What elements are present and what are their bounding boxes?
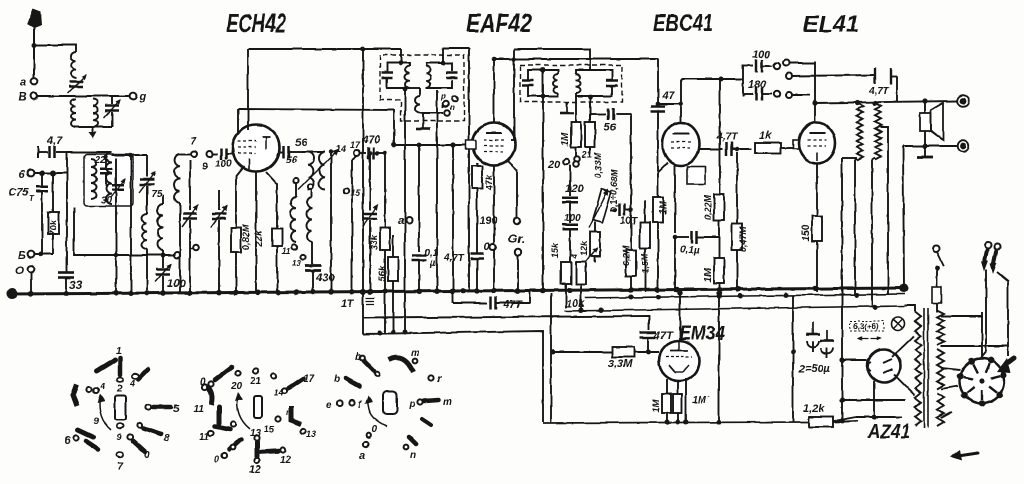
tube AZ41 lead down [894,374,915,395]
tube EAF42 cathode lead [493,166,495,292]
label EBC41 [653,10,713,37]
resistor 15k [550,242,571,308]
svg-text:e: e [326,400,332,411]
capacitor 22 [94,155,112,186]
mains switch [933,246,944,287]
IF2 secondary coil [576,74,581,93]
capacitor 33 [58,271,83,292]
terminal o1 [508,161,520,224]
svg-text:4,7T: 4,7T [868,86,890,97]
S1 arrow [97,394,111,430]
osc coil L3 [174,154,191,292]
osc contact 8 [190,245,199,251]
capacitor 100b [562,213,581,262]
IF2 primary coil [553,74,558,93]
svg-text:O: O [15,265,24,277]
svg-text:n: n [450,103,455,112]
svg-text:4,7T: 4,7T [716,132,738,143]
svg-text:1M: 1M [703,267,714,282]
osc padder coil P1 [290,184,296,242]
IF2 secondary cap [606,81,618,86]
tube EAF42 grids [484,140,504,152]
S2 pin12b [261,447,292,466]
tube EBC41 diode box [687,167,705,184]
wire antenna to coil [32,43,77,53]
terminal 0 [484,241,496,253]
wire x453 [450,142,455,292]
svg-text:9: 9 [202,161,209,173]
svg-text:0,1÷0,68M: 0,1÷0,68M [609,169,619,212]
resistor 3,3M [551,347,660,370]
svg-text:5: 5 [173,403,180,415]
transformer taps [941,316,1008,418]
resistor 1M a [560,96,581,160]
wire socket top feed [981,312,983,357]
S2 pin15 [264,408,291,434]
svg-text:47T: 47T [502,299,523,311]
svg-text:100: 100 [564,213,581,224]
svg-text:11: 11 [193,404,204,415]
S1 pin5 [145,403,180,415]
S1 pin6 [64,430,98,449]
tube AZ41 cathode link [839,357,867,362]
speaker [920,101,943,146]
capacitor 470 [360,134,385,159]
capacitor 430 [305,242,335,292]
terminal g1 [202,151,213,173]
capacitor 180 [743,79,780,101]
S2 pin11 [193,384,212,415]
switch contacts 20 21 [547,150,592,171]
S2 pin11b [199,407,236,443]
capacitor 4,7T b [699,132,752,156]
terminal circle EL41 mid [786,92,810,98]
svg-text:EBC41: EBC41 [653,10,713,37]
tube EBC41 plate [673,133,689,135]
tube EL41 grid connector [793,140,802,149]
resistor 22k [254,172,282,292]
IF2 shield box dashed [520,65,622,102]
resistor 6,2M [621,208,636,292]
output transformer primary bottom [842,158,857,160]
dial lamp label [850,321,884,331]
RF coil shield box [84,154,133,206]
svg-text:1T: 1T [341,298,355,310]
wire x116 column [115,158,117,292]
long wire x363 [362,49,364,292]
svg-text:p: p [440,92,446,101]
svg-text:100: 100 [752,49,771,61]
capacitor 120 [562,165,584,223]
svg-text:4: 4 [129,378,135,388]
terminal circle y76 [786,73,792,79]
antenna coupling coil [71,52,76,78]
svg-text:20: 20 [547,159,561,171]
tube EAF42 plate [486,132,502,134]
osc contact circles [293,178,313,189]
tube EL41 plate lead [812,61,817,123]
bus right terminal dot [900,284,909,293]
wire plate top x248 [247,49,249,130]
capacitor 47T bypass [453,289,530,311]
svg-text:EL41: EL41 [803,11,859,38]
wire x352 col [351,160,353,292]
tube ECH42 grids [238,141,256,153]
speaker bottom wire [903,143,957,148]
terminal O [15,265,34,292]
capacitor 10T [610,204,638,227]
band switch rail [74,207,177,258]
input transformer secondary [93,99,98,127]
rail3 dots [579,305,878,313]
fuse [932,287,941,312]
svg-text:7: 7 [190,136,196,147]
volume potentiometer [589,189,611,228]
wire grid2 x238 [237,109,239,134]
tube ECH42 envelope [233,125,280,172]
svg-text:0,22M: 0,22M [703,194,713,220]
resistor 70k [48,173,59,254]
svg-text:75: 75 [151,189,163,200]
S3 pin 0 [367,424,378,437]
S2 pin13 [250,428,262,439]
resistor 56k col [377,235,398,333]
rectifier socket arrow [997,358,1014,373]
osc coil L4b [158,195,164,250]
svg-text:11: 11 [282,247,291,256]
svg-text:6: 6 [64,435,71,447]
svg-text:12: 12 [249,464,261,476]
tube ECH42 cathode [248,158,250,169]
svg-text:2=50µ: 2=50µ [798,363,831,375]
svg-text:430: 430 [315,272,335,284]
svg-text:1M: 1M [658,200,669,215]
rail y109 [238,109,394,145]
svg-text:4: 4 [570,253,579,259]
wire 0,22M top [719,79,721,194]
bus junction dots [28,286,818,297]
electrolytic 2x50u [806,322,834,358]
trimmer 75 [139,155,163,214]
svg-text:ECH42: ECH42 [226,8,286,38]
svg-text:15: 15 [264,424,275,434]
trimmer 30 [101,179,125,206]
terminal B2 [18,250,53,262]
svg-text:4,7T: 4,7T [443,253,465,264]
rail2 dots [629,293,860,300]
svg-text:0: 0 [372,424,378,435]
capacitor 4,7T c [868,68,897,101]
svg-text:4,7: 4,7 [46,135,63,147]
S2 pin17 [282,374,314,394]
svg-text:20: 20 [230,381,243,392]
rectifier socket pins [957,357,1007,407]
svg-text:1M´: 1M´ [692,395,710,406]
tube EL41 cathode [816,152,818,161]
tube EBC41 cathode lead [674,165,676,233]
resistor 1M d [651,394,671,422]
IF2 primary cap [522,81,534,86]
rail2 y297 [585,294,905,298]
label EAF42 [466,8,532,38]
IF1 primary coil [405,66,410,88]
rail C y59 [492,57,658,62]
S3 pins e f [326,400,363,411]
tube EL41 plate [809,132,825,134]
capacitor 4,7 [38,135,67,158]
label 10k [566,297,585,310]
svg-text:b: b [334,374,340,385]
resistor 47k [472,163,494,292]
svg-text:m: m [411,348,420,359]
rail5 y333 [363,330,543,423]
tube AZ41 filament leads [834,381,902,421]
tube EBC41 plate lead [658,79,683,123]
dial arrows [858,337,880,340]
S1 pin8 [137,422,170,444]
label ECH42 [226,8,286,38]
osc transformer coil A [308,152,314,190]
svg-text:1k: 1k [759,130,772,142]
output transformer tap lead [880,127,888,295]
svg-text:EAF42: EAF42 [466,8,532,38]
svg-text:100: 100 [215,159,232,170]
svg-text:70k: 70k [48,220,58,236]
S1 pin0 [127,434,150,461]
terminal o2 [515,249,521,292]
svg-text:15: 15 [350,188,361,198]
rail3 y310 [565,306,905,311]
rectifier socket [960,359,1005,404]
IF2 left output [542,70,544,292]
svg-text:150: 150 [801,224,812,241]
wire B to g [37,95,130,97]
tube EM34 internals [666,342,692,372]
trimmer col x370 [362,151,378,292]
svg-text:47k: 47k [484,174,494,191]
IF2 plate feed [511,49,590,140]
terminal 15 [343,188,361,198]
IF1 tertiary taps [420,92,458,116]
S2 pin14 [271,373,284,398]
svg-text:6: 6 [19,169,26,181]
wire x131 column [129,154,133,292]
svg-text:3,3M: 3,3M [608,358,633,370]
S1 left bracket [73,384,77,406]
capacitor 100 grid [213,148,233,170]
antenna trimmer cap [68,75,86,93]
S1 pin4 right [129,374,138,388]
IF1 bottom lead [404,89,406,333]
svg-text:1: 1 [116,346,122,357]
tube ECH42 triode plate [262,137,270,149]
mains plug left prong [981,242,991,358]
svg-text:C75: C75 [8,187,29,199]
wire y155 link [112,154,147,156]
output transformer secondary bottom [872,158,875,160]
power transformer secondary bottom [937,393,944,426]
tube EM34 envelope [659,341,699,381]
IF1 secondary coil [426,66,431,88]
resistor 0,47M [732,147,748,292]
svg-text:33: 33 [69,278,83,292]
wire x419 col [412,143,438,292]
terminal 7 [190,136,197,157]
capacitor 47 [651,59,675,197]
IF2 ground [560,102,574,113]
svg-text:7: 7 [117,461,123,472]
IF2 primary top dot [541,68,546,73]
wire 4,7 to coil top [67,151,112,153]
svg-text:0: 0 [214,454,219,464]
IF2 bottom dots [541,94,593,100]
terminal 6 [19,169,67,181]
svg-text:6,3(+6): 6,3(+6) [853,322,879,331]
long wire x469 [467,48,472,292]
svg-text:B: B [18,90,27,104]
label 2x50u [798,363,831,375]
S2 right elbow [291,406,316,439]
svg-text:m: m [443,397,452,408]
RF coil L1 [91,159,97,199]
svg-text:21: 21 [581,150,592,160]
grid rail y145 [392,143,476,148]
resistor 150 [801,163,822,292]
IF1 shield box dashed [380,55,464,121]
resistor 1,2k [803,403,833,427]
S2 bottom-left stroke [214,439,241,464]
tube EL41 envelope [799,123,835,164]
svg-text:1M: 1M [560,131,571,146]
mains plug right prong [990,244,1008,356]
S1 pin4 left [86,381,105,394]
svg-text:190: 190 [479,215,498,227]
resistor 1,5M [640,200,650,292]
svg-text:1,2k: 1,2k [803,403,825,415]
variable capacitor VC2 [211,190,227,292]
output transformer secondary [875,103,881,160]
IF2 primary loop [528,70,558,96]
volume pot label [609,169,619,212]
S3 stroke right low [422,419,431,425]
EM34 lead dots [665,420,689,425]
svg-text:9: 9 [94,416,99,426]
osc transformer coil B [302,152,325,190]
tube EAF42 plate lead [493,59,495,122]
resistor 0,22M [703,194,724,258]
capacitor 47T em34 [640,330,674,352]
top rail y49 [248,47,401,52]
svg-text:1M: 1M [651,399,661,412]
S3 pin b top [355,352,379,376]
S2 pin20 [230,370,243,392]
wire plate rail y79 [681,77,743,82]
svg-text:100: 100 [167,278,186,290]
rail4 y317 [363,316,649,330]
label 190 [479,215,498,227]
svg-text:21: 21 [249,376,262,387]
wire coil column down [66,152,68,271]
IF1 secondary loop [426,63,452,88]
tube ECH42 center lead [255,172,257,292]
svg-text:p: p [408,399,415,410]
pilot lamp [892,318,905,331]
IF1 primary cap [382,73,393,78]
svg-text:Б: Б [18,250,26,262]
svg-text:µ: µ [429,258,436,269]
terminal a [20,76,37,88]
S3 pin p m [408,397,452,410]
transformer primary top lead [905,305,915,312]
svg-text:15k: 15k [550,242,560,258]
svg-text:0,47M: 0,47M [738,226,748,252]
svg-text:14: 14 [336,144,346,154]
svg-text:56: 56 [286,155,298,166]
bottom arrow mark [950,450,978,461]
svg-text:0,1µ: 0,1µ [680,245,700,256]
svg-text:180: 180 [748,79,767,91]
IF1 feed [399,49,404,65]
terminal a AVC [398,215,412,227]
svg-text:120: 120 [565,183,584,195]
resistor 1M b [653,163,669,292]
capacitor 56 osc [280,137,308,166]
S3 pin n [404,437,417,461]
tube AZ41 lead up [892,336,914,357]
input transformer primary [71,99,76,127]
resistor 0,33M [585,112,603,178]
svg-text:9: 9 [117,432,122,442]
svg-text:47T: 47T [653,330,674,342]
svg-text:0,33M: 0,33M [593,152,603,178]
power transformer primary [915,312,921,426]
S1 stroke top-left [97,360,115,371]
capacitor 0,1u [673,231,719,293]
capacitor 56 det [590,98,631,210]
wire speaker to bus end [903,146,904,287]
resistor 12k [579,222,600,262]
band rail terminal [174,252,180,258]
svg-text:470: 470 [361,134,381,146]
tube EBC41 envelope [663,123,700,166]
IF1 primary loop [387,63,410,88]
S1 pin7 [117,453,123,472]
S1 pin9 bottom [117,424,123,442]
resistor 4k7 [570,253,586,308]
S2 pin21 [249,368,262,387]
wire x793 [791,295,796,422]
capacitor 100 top [743,49,780,73]
wire x842 [840,158,845,423]
resistor 1M c [703,258,724,292]
tube EM34 leads [667,378,686,422]
S1 pin1 [116,346,123,395]
tube EAF42 envelope [473,123,516,166]
svg-text:8: 8 [164,433,170,444]
terminal g [130,91,146,103]
speaker terminal top [957,95,969,107]
input transformer ground [76,127,112,139]
S2 pin12 [249,435,261,476]
S3 pin a [359,441,369,462]
IF1 secondary feed [441,48,469,65]
wire x551 down [550,293,552,422]
S1 pin9 left [94,416,99,426]
svg-text:47: 47 [661,90,675,102]
antenna [27,9,42,79]
capacitor 4,7T [443,253,484,264]
ground 1T [341,293,374,334]
